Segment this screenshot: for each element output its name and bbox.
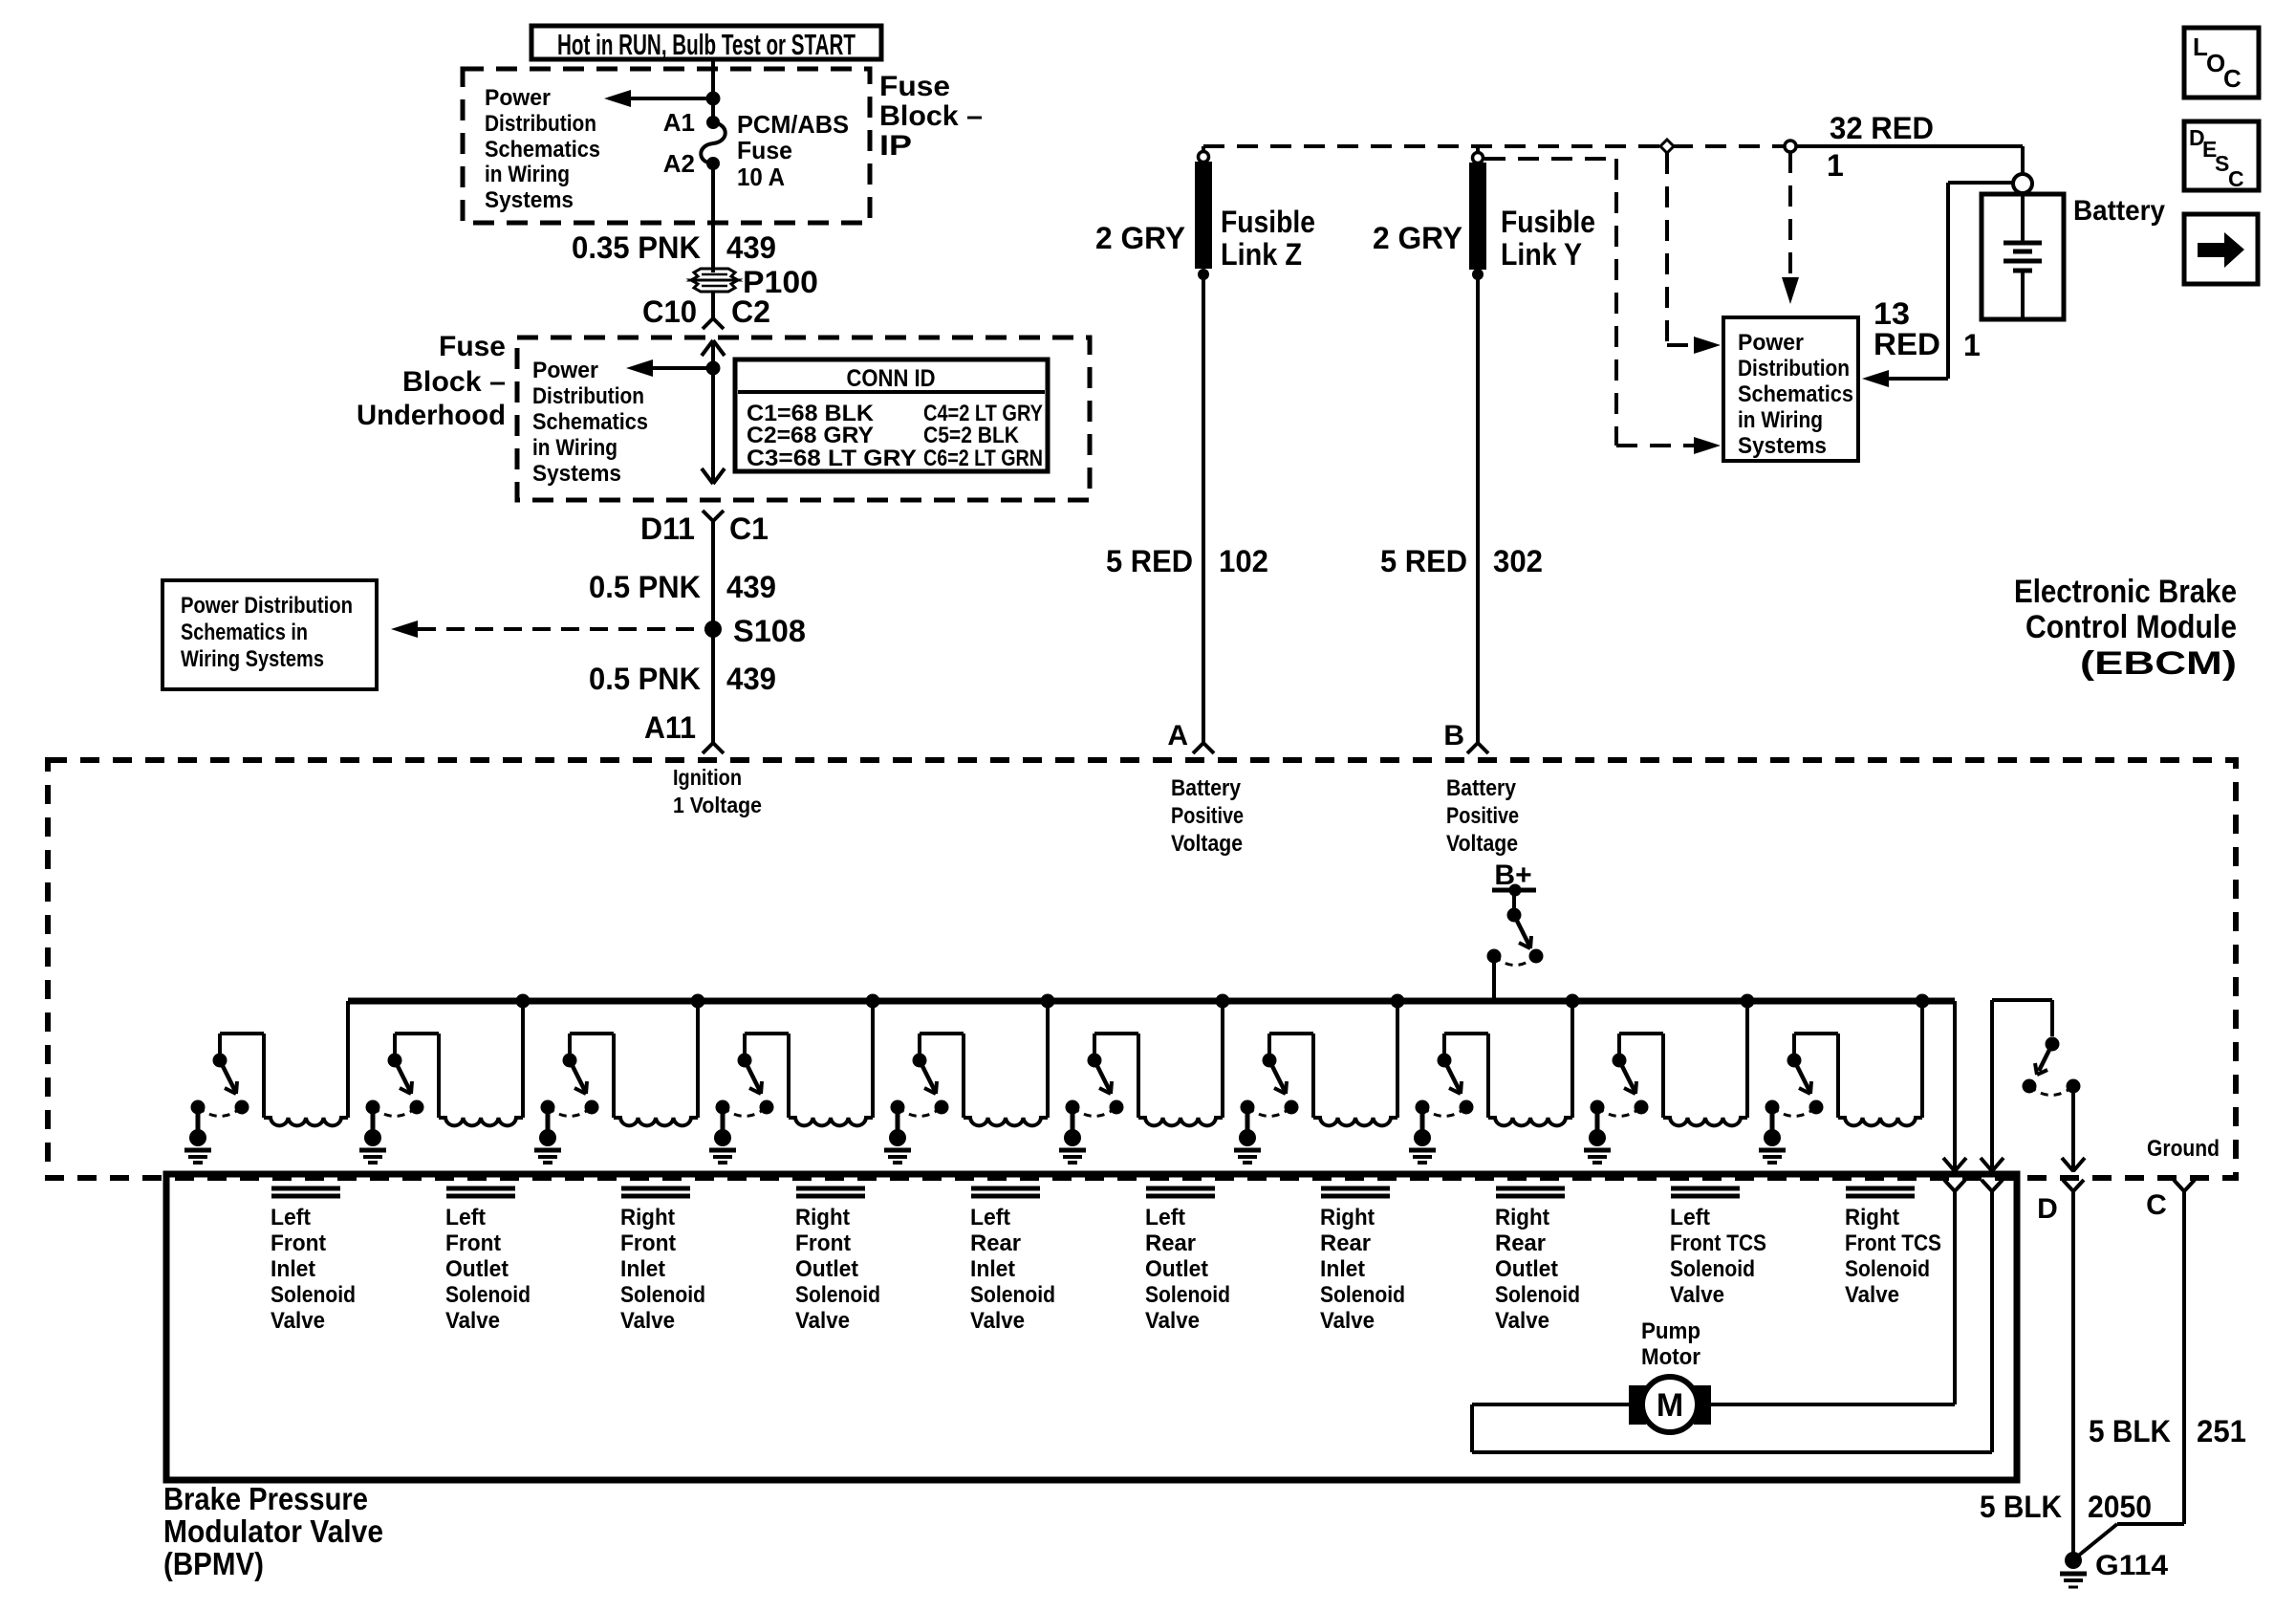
svg-text:Valve: Valve (795, 1308, 850, 1334)
net label B+ (1494, 860, 1531, 891)
wire: bus riser to Right Rear Outlet solenoid coil (1570, 1001, 1574, 1118)
svg-text:439: 439 (726, 570, 776, 604)
splice S108 label (733, 614, 806, 648)
connector P100 name label (743, 265, 818, 299)
driver switch: Right Rear Outlet (1416, 1054, 1474, 1117)
fusible link Y name label (1501, 205, 1595, 272)
solenoid coil: Right Rear Outlet (1488, 1118, 1572, 1125)
connector fork at EBCM pin B (1467, 743, 1488, 753)
node: bus junction for Right Front TCS driver (1916, 994, 1930, 1009)
EBCM module dashed outline (48, 760, 2236, 1178)
svg-text:Front: Front (620, 1230, 676, 1256)
CONN ID table (735, 359, 1048, 471)
pin A2 label (663, 149, 695, 178)
svg-text:13: 13 (1874, 296, 1910, 331)
svg-text:Solenoid: Solenoid (1670, 1256, 1755, 1282)
dashed battery feed bus wire (1203, 146, 1786, 151)
svg-text:Valve: Valve (1495, 1308, 1549, 1334)
svg-text:Front TCS: Front TCS (1670, 1230, 1766, 1256)
svg-text:Schematics: Schematics (485, 137, 600, 163)
ground symbol (Left Front Outlet driver) (359, 1129, 386, 1163)
fusible link Z name label (1221, 205, 1315, 272)
wire label 5 BLK 251 (2089, 1414, 2246, 1448)
pin C label (2146, 1189, 2167, 1221)
svg-text:C2=68 GRY: C2=68 GRY (747, 423, 874, 448)
svg-text:302: 302 (1493, 544, 1543, 578)
wire label 2 GRY (link Y) (1373, 221, 1462, 255)
wire label 13 RED 1 (1874, 296, 1981, 362)
wire: bus riser to Left Rear Outlet solenoid coil (1221, 1001, 1224, 1118)
wire: bus riser to Right Rear Inlet solenoid coil (1396, 1001, 1399, 1118)
fuse PCM/ABS value label (737, 110, 849, 191)
fuse PCM/ABS 10A symbol (701, 116, 726, 170)
pin net label: Ignition 1 Voltage (673, 765, 762, 817)
wire label 0.35 PNK 439 (572, 230, 776, 265)
net label: Ground (EBCM internal) (2147, 1136, 2220, 1162)
ground symbol (Left Rear Outlet driver) (1059, 1129, 1086, 1163)
wire: coil to driver switch pivot (Right Rear Inlet) (1269, 1034, 1313, 1118)
driver switch: Left Rear Inlet (891, 1054, 949, 1117)
valve name label: Right Rear Outlet Solenoid Valve (1495, 1205, 1580, 1334)
svg-text:Valve: Valve (1145, 1308, 1200, 1334)
icon: arrow legend box (2184, 214, 2258, 284)
ground G114 (2060, 1552, 2087, 1587)
svg-text:Inlet: Inlet (970, 1256, 1015, 1282)
svg-text:Fusible: Fusible (1501, 205, 1595, 239)
svg-text:Rear: Rear (1320, 1230, 1371, 1256)
svg-text:Valve: Valve (970, 1308, 1025, 1334)
reference box: Power Distribution Schematics in Wiring Systems (left) (162, 580, 377, 689)
pin A11 label (644, 710, 696, 745)
svg-text:C6=2 LT GRN: C6=2 LT GRN (923, 446, 1043, 471)
arrow: pump motor return exits EBCM (1981, 1158, 2004, 1171)
svg-text:Brake Pressure: Brake Pressure (163, 1481, 368, 1516)
valve name label: Left Rear Outlet Solenoid Valve (1145, 1205, 1230, 1334)
battery positive terminal node (2013, 174, 2032, 193)
reference note: Power Distribution Schematics in Wiring Systems (IP) (485, 85, 600, 213)
svg-text:Underhood: Underhood (357, 400, 506, 431)
solenoid coil: Right Rear Inlet (1313, 1118, 1397, 1125)
wire: 5 RED 102 from fusible link Z to EBCM pin A (1202, 274, 1205, 743)
svg-text:2 GRY: 2 GRY (1373, 221, 1462, 255)
wire: 32 RED from dashed bus to battery (1796, 146, 2023, 174)
wire: bus riser to Left Front TCS solenoid coil (1745, 1001, 1749, 1118)
svg-text:(EBCM): (EBCM) (2080, 645, 2237, 682)
svg-text:Valve: Valve (1320, 1308, 1375, 1334)
wire: coil to driver switch pivot (Left Front Inlet) (220, 1034, 264, 1118)
wire: bus end down to pump motor feed pin (1953, 1001, 1957, 1172)
wire: switch to ground (Right Front Inlet) (546, 1107, 551, 1132)
node: bus junction for Right Rear Inlet driver (1391, 994, 1405, 1009)
wire: arrow to power distribution schematics (underhood) (626, 359, 713, 377)
fuse block - IP name label (879, 71, 983, 162)
svg-text:Distribution: Distribution (1738, 356, 1850, 381)
svg-text:Voltage: Voltage (1171, 831, 1243, 857)
solenoid coil: Left Rear Outlet (1138, 1118, 1223, 1125)
wire: switch to ground (Left Front TCS) (1595, 1107, 1600, 1132)
wire: 5 BLK 2050 from pin D to G114 (2071, 1191, 2075, 1557)
driver switch: Left Front Outlet (366, 1054, 424, 1117)
fusible link Z (1195, 162, 1212, 280)
wire: coil to driver switch pivot (Right Rear Outlet) (1444, 1034, 1488, 1118)
solenoid coil: Left Front Inlet (264, 1118, 348, 1125)
connector P100 symbol (691, 269, 738, 292)
battery name label (2073, 195, 2165, 227)
ground symbol (Right Rear Inlet driver) (1234, 1129, 1261, 1163)
wire: B+ switch to solenoid supply bus (1492, 956, 1496, 998)
svg-text:Outlet: Outlet (1495, 1256, 1558, 1282)
svg-text:32 RED: 32 RED (1830, 111, 1934, 145)
svg-text:Hot in RUN, Bulb Test or START: Hot in RUN, Bulb Test or START (557, 28, 856, 61)
svg-text:Outlet: Outlet (795, 1256, 858, 1282)
valve symbol: Right Rear Outlet solenoid valve (1496, 1188, 1565, 1196)
svg-text:Systems: Systems (1738, 433, 1827, 459)
svg-text:Power: Power (485, 85, 551, 111)
svg-text:Motor: Motor (1641, 1344, 1700, 1370)
svg-text:Right: Right (620, 1205, 675, 1230)
svg-text:Power: Power (532, 358, 598, 383)
svg-text:Schematics: Schematics (1738, 381, 1853, 407)
svg-text:Solenoid: Solenoid (445, 1282, 531, 1308)
svg-text:PCM/ABS: PCM/ABS (737, 110, 849, 139)
svg-text:Front TCS: Front TCS (1845, 1230, 1941, 1256)
ground symbol (Right Front Outlet driver) (709, 1129, 736, 1163)
connector fork at C10/C2 (703, 318, 724, 329)
wire: coil to driver switch pivot (Right Front Inlet) (570, 1034, 614, 1118)
valve name label: Right Front Outlet Solenoid Valve (795, 1205, 880, 1334)
node: bus junction for Left Rear Inlet driver (1041, 994, 1055, 1009)
svg-text:Valve: Valve (1845, 1282, 1899, 1308)
svg-text:Solenoid: Solenoid (620, 1282, 705, 1308)
connector fork at EBCM pin A11 (703, 743, 724, 753)
node: open circle where 32 RED meets dashed bus (1785, 141, 1796, 152)
svg-text:A2: A2 (663, 149, 695, 178)
valve name label: Left Front Outlet Solenoid Valve (445, 1205, 531, 1334)
svg-text:Left: Left (271, 1205, 311, 1230)
terminal C2 label (731, 294, 770, 329)
driver switch: Right Front Outlet (716, 1054, 774, 1117)
valve name label: Left Front TCS Solenoid Valve (1670, 1205, 1766, 1308)
pin net label: Battery Positive Voltage (A) (1171, 775, 1244, 857)
svg-text:C10: C10 (642, 294, 697, 329)
svg-text:Inlet: Inlet (271, 1256, 315, 1282)
wire: switch to ground (Left Rear Outlet) (1071, 1107, 1075, 1132)
svg-text:Rear: Rear (1145, 1230, 1196, 1256)
svg-text:Valve: Valve (1670, 1282, 1724, 1308)
svg-text:C: C (2223, 64, 2242, 93)
svg-text:Block –: Block – (402, 366, 506, 398)
svg-text:Battery: Battery (1446, 775, 1517, 801)
wire: bus riser to Right Front TCS solenoid coil (1920, 1001, 1924, 1118)
svg-text:Valve: Valve (620, 1308, 675, 1334)
relay switch: pump motor ground (2023, 1037, 2081, 1096)
wire: 0.5 PNK 439 from S108 to EBCM pin A11 (711, 629, 715, 743)
svg-text:Ground: Ground (2147, 1136, 2220, 1162)
svg-text:0.5 PNK: 0.5 PNK (589, 570, 701, 604)
solenoid coil: Right Front Outlet (789, 1118, 873, 1125)
wire: ignition feed from Hot-in-RUN box down into Fuse Block - IP (711, 59, 715, 272)
connector fork at D11/C1 (703, 511, 724, 521)
wire: pump motor feed inside BPMV (1953, 1191, 1957, 1404)
svg-text:102: 102 (1219, 544, 1268, 578)
svg-text:1 Voltage: 1 Voltage (673, 793, 762, 817)
wire label 2 GRY (link Z) (1095, 221, 1185, 255)
svg-text:Front: Front (271, 1230, 326, 1256)
wire: 5 RED 302 from fusible link Y to EBCM pin B (1476, 274, 1480, 743)
svg-text:Inlet: Inlet (620, 1256, 665, 1282)
svg-text:2 GRY: 2 GRY (1095, 221, 1185, 255)
wire label 5 BLK 2050 (1980, 1490, 2152, 1524)
wire: B+ bar to relay pivot (1512, 890, 1516, 915)
svg-text:439: 439 (726, 230, 776, 265)
svg-text:251: 251 (2197, 1414, 2246, 1448)
svg-text:B: B (1443, 720, 1464, 751)
svg-text:Front: Front (795, 1230, 851, 1256)
svg-text:A: A (1167, 720, 1188, 751)
svg-text:Outlet: Outlet (1145, 1256, 1208, 1282)
svg-text:5 RED: 5 RED (1106, 544, 1193, 578)
node: junction on ignition feed in IP fuse block (706, 92, 721, 106)
connector fork: pump motor return into BPMV (1982, 1180, 2003, 1191)
module name label: Brake Pressure Modulator Valve (BPMV) (163, 1481, 383, 1581)
wire: switch to ground (Left Front Outlet) (371, 1107, 376, 1132)
wire: bus riser to Left Front Outlet solenoid coil (521, 1001, 525, 1118)
valve symbol: Left Front Inlet solenoid valve (271, 1188, 340, 1196)
svg-text:5 RED: 5 RED (1380, 544, 1467, 578)
BPMV module outline (166, 1174, 2017, 1480)
driver switch: Left Front TCS (1591, 1054, 1649, 1117)
wire: coil to driver switch pivot (Left Rear Inlet) (920, 1034, 964, 1118)
svg-text:5 BLK: 5 BLK (2089, 1414, 2171, 1448)
valve symbol: Left Front TCS solenoid valve (1671, 1188, 1740, 1196)
driver switch: Left Front Inlet (191, 1054, 249, 1117)
power feed label box: Hot in RUN, Bulb Test or START (531, 26, 881, 61)
node: junction in underhood fuse block (706, 361, 721, 376)
valve symbol: Right Front Inlet solenoid valve (621, 1188, 690, 1196)
wire: 13 RED from battery to power distribution reference (1862, 183, 2013, 387)
wire: pump motor to feed pin (1711, 1403, 1955, 1406)
svg-text:Valve: Valve (271, 1308, 325, 1334)
svg-text:Rear: Rear (970, 1230, 1021, 1256)
fuse block - IP dashed outline (463, 69, 870, 223)
svg-text:5 BLK: 5 BLK (1980, 1490, 2062, 1524)
svg-text:D11: D11 (640, 512, 695, 546)
wire label 32 RED (1830, 111, 1934, 145)
svg-text:Solenoid: Solenoid (1845, 1256, 1930, 1282)
svg-text:Voltage: Voltage (1446, 831, 1518, 857)
pin B label (1443, 720, 1464, 751)
svg-text:Positive: Positive (1171, 803, 1244, 829)
svg-text:Valve: Valve (445, 1308, 500, 1334)
svg-text:CONN ID: CONN ID (847, 365, 936, 392)
valve symbol: Left Front Outlet solenoid valve (446, 1188, 515, 1196)
node: bus junction for Right Front Outlet driver (866, 994, 880, 1009)
driver switch: Right Front Inlet (541, 1054, 599, 1117)
wire: switch to ground (Left Rear Inlet) (896, 1107, 900, 1132)
svg-text:Battery: Battery (1171, 775, 1242, 801)
ground symbol (Right Rear Outlet driver) (1409, 1129, 1436, 1163)
pump motor name label (1641, 1318, 1700, 1370)
svg-text:0.5 PNK: 0.5 PNK (589, 662, 701, 696)
svg-text:A11: A11 (644, 710, 696, 745)
svg-text:RED: RED (1874, 327, 1940, 361)
svg-text:Left: Left (1145, 1205, 1185, 1230)
wire: coil to driver switch pivot (Right Front Outlet) (745, 1034, 789, 1118)
fusible link Y (1469, 163, 1486, 280)
connector fork at EBCM pin A (1193, 743, 1214, 753)
svg-text:Systems: Systems (532, 461, 621, 487)
fuse block - underhood dashed outline (517, 337, 1090, 500)
relay switch: pump motor supply (B+) (1487, 908, 1544, 966)
svg-text:Battery: Battery (2073, 195, 2165, 227)
valve symbol: Left Rear Outlet solenoid valve (1146, 1188, 1215, 1196)
terminal C10 label (642, 294, 697, 329)
terminal D11 label (640, 512, 695, 546)
wire: 5 BLK 251 from pin C to G114 (2076, 1191, 2184, 1557)
valve symbol: Right Front TCS solenoid valve (1846, 1188, 1915, 1196)
solenoid coil: Left Rear Inlet (964, 1118, 1048, 1125)
svg-text:Block –: Block – (879, 100, 983, 132)
pin A label (1167, 720, 1188, 751)
battery (1982, 194, 2064, 319)
svg-text:Solenoid: Solenoid (1320, 1282, 1405, 1308)
solenoid coil: Right Front Inlet (614, 1118, 698, 1125)
svg-text:C1: C1 (729, 512, 769, 546)
svg-text:S108: S108 (733, 614, 806, 648)
wire: coil to driver switch pivot (Left Front Outlet) (395, 1034, 439, 1118)
svg-text:Modulator Valve: Modulator Valve (163, 1513, 383, 1549)
node: bus junction for Right Front Inlet driver (691, 994, 705, 1009)
svg-text:Power: Power (1738, 330, 1804, 356)
valve name label: Right Front Inlet Solenoid Valve (620, 1205, 705, 1334)
ground symbol (Right Front Inlet driver) (534, 1129, 561, 1163)
node: bus junction for Left Rear Outlet driver (1216, 994, 1230, 1009)
wire: switch to ground (Left Front Inlet) (196, 1107, 201, 1132)
svg-text:Right: Right (1495, 1205, 1549, 1230)
module name label: Electronic Brake Control Module (EBCM) (2014, 574, 2237, 682)
node: bus junction for Right Rear Outlet driver (1566, 994, 1580, 1009)
wire: pump motor return inside BPMV (1472, 1191, 1992, 1452)
arrow: pin D ground wire exits EBCM (2062, 1158, 2085, 1171)
valve symbol: Left Rear Inlet solenoid valve (971, 1188, 1040, 1196)
valve symbol: Right Front Outlet solenoid valve (796, 1188, 865, 1196)
svg-text:Rear: Rear (1495, 1230, 1546, 1256)
wire: bus riser to Right Front Inlet solenoid coil (696, 1001, 700, 1118)
ground symbol (Left Front TCS driver) (1584, 1129, 1611, 1163)
svg-text:Systems: Systems (485, 187, 574, 213)
svg-text:10 A: 10 A (737, 163, 785, 191)
wire: switch to ground (Right Rear Outlet) (1420, 1107, 1425, 1132)
svg-text:C: C (2146, 1189, 2167, 1221)
svg-text:1: 1 (1963, 328, 1981, 362)
wire: switch to ground (Right Rear Inlet) (1245, 1107, 1250, 1132)
svg-text:Solenoid: Solenoid (970, 1282, 1055, 1308)
svg-text:C3=68 LT GRY: C3=68 LT GRY (747, 446, 917, 471)
solenoid coil: Left Front TCS (1663, 1118, 1747, 1125)
connector fork: pin C wire below EBCM (2174, 1180, 2195, 1191)
valve name label: Right Rear Inlet Solenoid Valve (1320, 1205, 1405, 1334)
svg-text:Positive: Positive (1446, 803, 1519, 829)
valve name label: Right Front TCS Solenoid Valve (1845, 1205, 1941, 1308)
icon: DESC legend box (2184, 121, 2259, 191)
svg-text:1: 1 (1827, 148, 1844, 183)
svg-text:Front: Front (445, 1230, 501, 1256)
icon: LOC legend box (2184, 28, 2259, 98)
splice S108 (704, 620, 722, 638)
node: diamond on dashed feed bus (1660, 140, 1674, 153)
dashed reference arrow from S108 to power distribution box (391, 620, 707, 638)
driver switch: Left Rear Outlet (1066, 1054, 1124, 1117)
svg-text:Right: Right (1320, 1205, 1375, 1230)
terminal C1 label (729, 512, 769, 546)
svg-text:Power Distribution: Power Distribution (181, 593, 353, 619)
svg-text:Outlet: Outlet (445, 1256, 509, 1282)
B+ internal supply bar (1492, 884, 1536, 897)
svg-text:Link Y: Link Y (1501, 237, 1582, 272)
node: bus junction for Left Front Outlet driver (516, 994, 531, 1009)
wire label 5 RED 302 (1380, 544, 1543, 578)
wire: switch to ground (Right Front TCS) (1770, 1107, 1775, 1132)
wire label 1 (32 RED circuit) (1827, 148, 1844, 183)
svg-text:Pump: Pump (1641, 1318, 1700, 1344)
svg-text:in Wiring: in Wiring (532, 435, 617, 461)
wire: coil to driver switch pivot (Left Front TCS) (1619, 1034, 1663, 1118)
pin D label (2037, 1193, 2058, 1225)
node: bus junction for Left Front TCS driver (1741, 994, 1755, 1009)
wire: pump motor return to relay pivot (1992, 1000, 2052, 1172)
node: open circle at fusible link Y top (1473, 146, 1484, 163)
pin A1 label (663, 108, 695, 137)
wire: arrow to power distribution schematics (IP) (604, 90, 713, 107)
svg-text:Ignition: Ignition (673, 765, 742, 790)
svg-text:Solenoid: Solenoid (1495, 1282, 1580, 1308)
svg-text:0.35 PNK: 0.35 PNK (572, 230, 701, 265)
reference note: Power Distribution Schematics in Wiring Systems (underhood) (532, 358, 648, 487)
arrow: pump motor feed exits EBCM (1943, 1158, 1966, 1171)
svg-text:Right: Right (795, 1205, 850, 1230)
wire: switch to ground (Right Front Outlet) (721, 1107, 726, 1132)
wire label 5 RED 102 (1106, 544, 1268, 578)
svg-text:Distribution: Distribution (532, 383, 644, 409)
wire label 0.5 PNK 439 (upper) (589, 570, 776, 604)
wire: coil to driver switch pivot (Right Front TCS) (1794, 1034, 1838, 1118)
wire: bus riser to Left Front Inlet solenoid coil (346, 1001, 350, 1118)
svg-text:in Wiring: in Wiring (485, 162, 570, 187)
wire: bus riser to Left Rear Inlet solenoid coil (1046, 1001, 1050, 1118)
solenoid supply bus wire (348, 998, 1955, 1005)
solenoid coil: Left Front Outlet (439, 1118, 523, 1125)
driver switch: Right Front TCS (1765, 1054, 1824, 1117)
svg-text:C2: C2 (731, 294, 770, 329)
reference box: Power Distribution Schematics in Wiring Systems (right) (1723, 317, 1858, 461)
pump motor M1 (1629, 1377, 1711, 1432)
svg-text:Electronic Brake: Electronic Brake (2014, 574, 2237, 610)
wire: ignition feed through underhood fuse block with direction arrows (702, 340, 725, 484)
svg-text:Left: Left (970, 1205, 1010, 1230)
ground symbol (Right Front TCS driver) (1759, 1129, 1786, 1163)
wire: 0.5 PNK 439 from D11 to S108 (711, 521, 715, 629)
svg-text:Solenoid: Solenoid (1145, 1282, 1230, 1308)
dashed branch wire to power distribution reference (upper) (1667, 153, 1721, 354)
connector fork: pump motor feed into BPMV (1944, 1180, 1965, 1191)
pin net label: Battery Positive Voltage (B) (1446, 775, 1519, 857)
svg-text:Solenoid: Solenoid (271, 1282, 356, 1308)
wire label 0.5 PNK 439 (lower) (589, 662, 776, 696)
svg-text:Control Module: Control Module (2025, 609, 2237, 645)
svg-text:C5=2 BLK: C5=2 BLK (923, 423, 1020, 448)
connector fork: pin D wire below EBCM (2063, 1180, 2084, 1191)
fuse block - underhood name label (357, 331, 506, 431)
